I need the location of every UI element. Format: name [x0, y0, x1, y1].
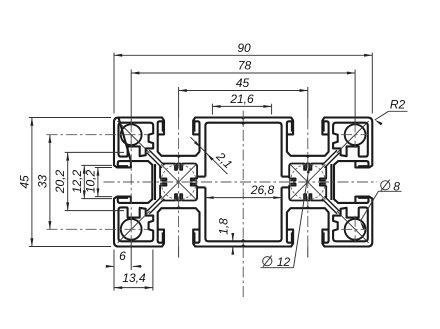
- svg-text:33: 33: [35, 175, 49, 189]
- svg-text:R2: R2: [390, 97, 406, 111]
- svg-text:13,4: 13,4: [122, 271, 146, 285]
- svg-text:1,8: 1,8: [217, 218, 231, 235]
- svg-text:10,2: 10,2: [83, 169, 97, 193]
- svg-text:6: 6: [119, 249, 126, 263]
- svg-text:12,2: 12,2: [70, 169, 84, 193]
- svg-text:26,8: 26,8: [250, 183, 275, 197]
- svg-text:90: 90: [237, 41, 251, 55]
- svg-text:8: 8: [393, 179, 400, 193]
- svg-text:45: 45: [236, 76, 250, 90]
- svg-text:45: 45: [17, 175, 31, 189]
- svg-text:78: 78: [238, 59, 252, 73]
- svg-text:21,6: 21,6: [229, 92, 254, 106]
- svg-text:12: 12: [277, 255, 291, 269]
- svg-text:20,2: 20,2: [53, 169, 67, 194]
